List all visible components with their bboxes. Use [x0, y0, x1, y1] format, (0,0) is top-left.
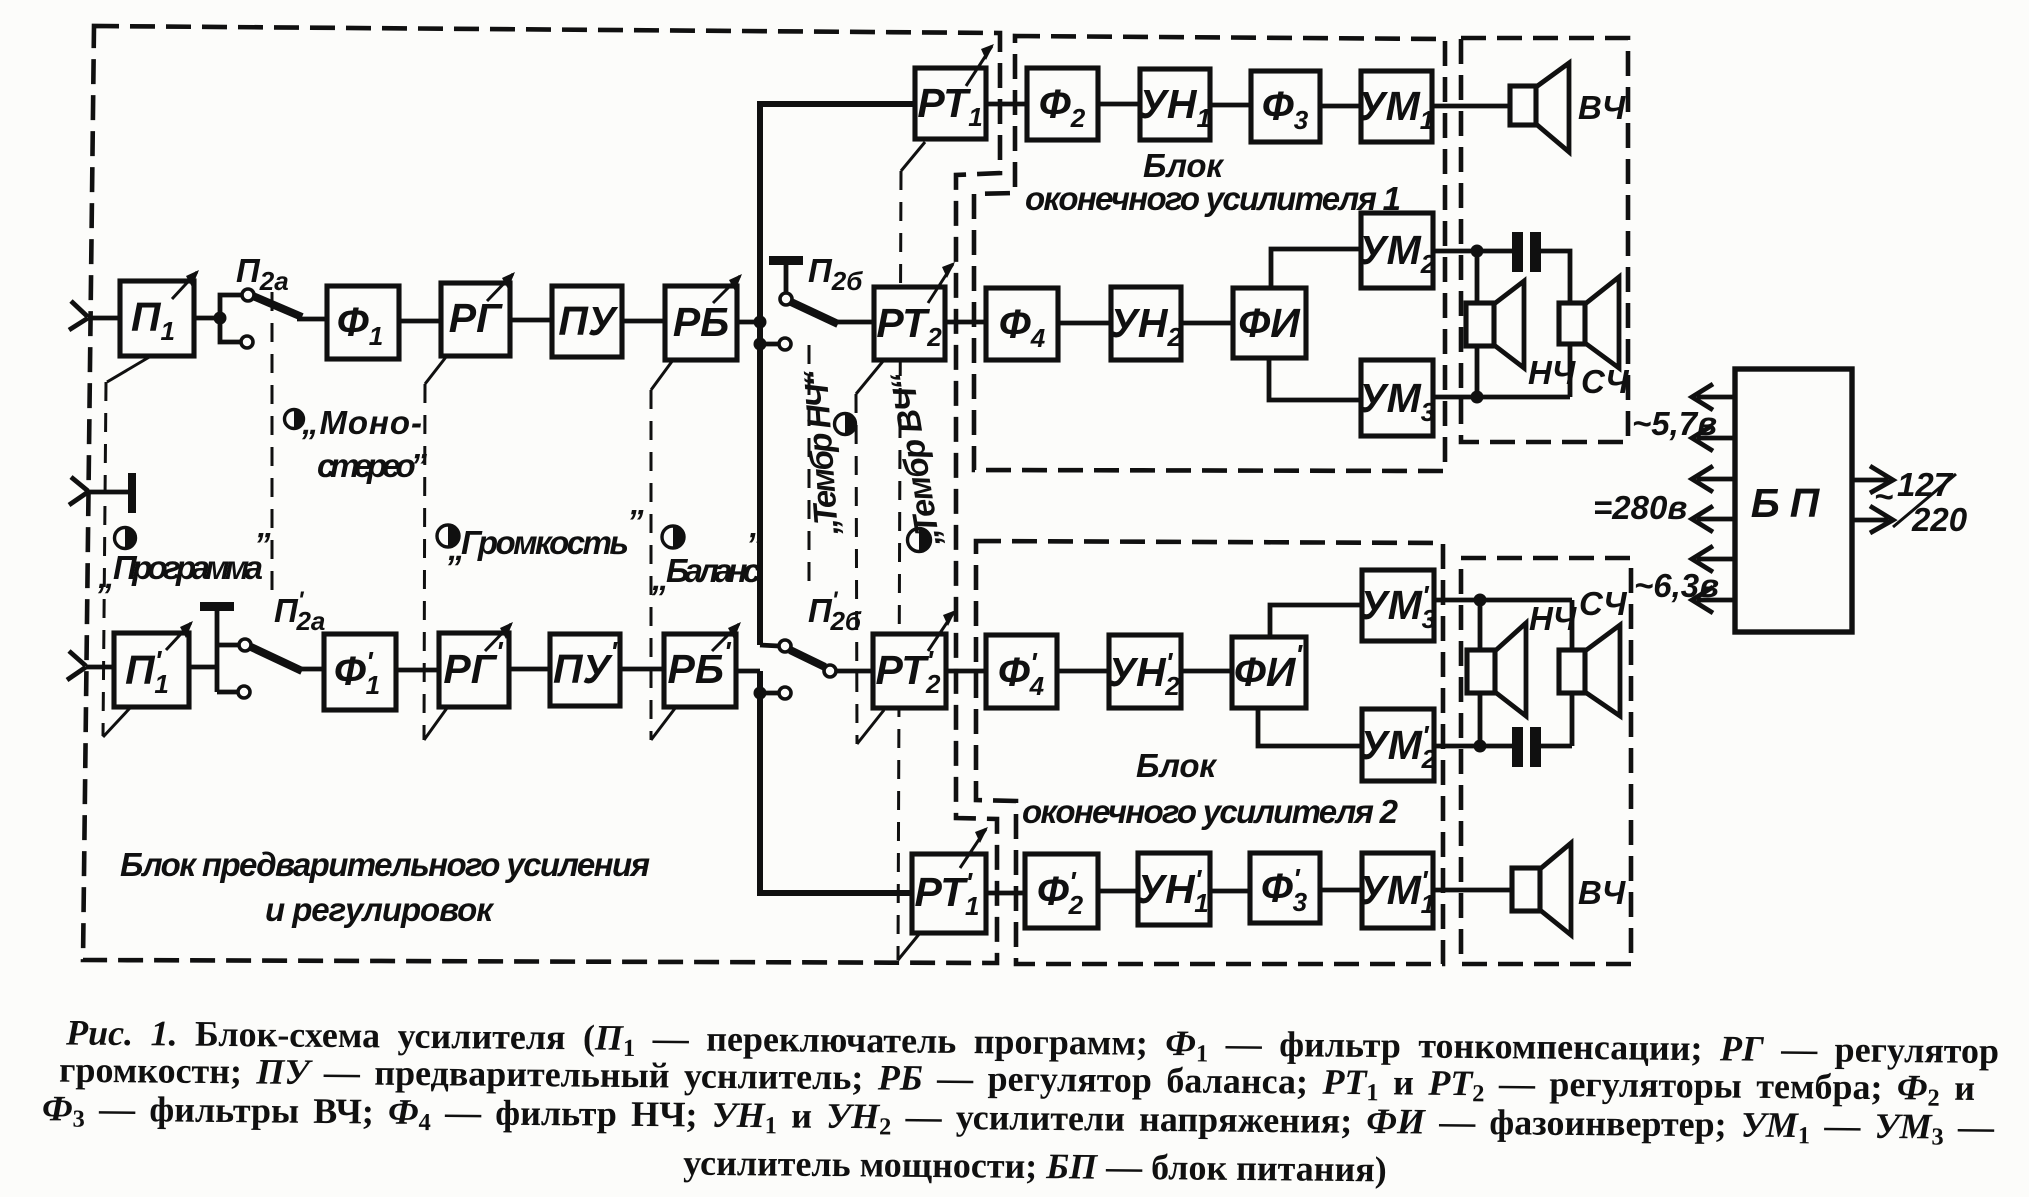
switch П'2б: [760, 640, 836, 677]
wire Ф'2 to УН'1: [1098, 889, 1138, 894]
bus wire to РТ1 and П'2б: [760, 104, 915, 645]
block РГ': [439, 622, 513, 707]
svg-text:Программа: Программа: [113, 549, 263, 586]
label ~6,3в: [1634, 567, 1719, 604]
БП output arrow 5 (~6,3в): [1692, 546, 1735, 572]
wire Ф'4 to УН'2: [1057, 669, 1109, 674]
wire П'2а to Ф'1: [297, 667, 324, 672]
wire ПУ to РБ: [622, 319, 665, 324]
wire УМ3 to speakers bottom: [1433, 395, 1570, 400]
svg-text:и регулировок: и регулировок: [265, 891, 495, 928]
svg-text:оконечного усилителя 1: оконечного усилителя 1: [1025, 180, 1401, 217]
svg-text:ВЧ: ВЧ: [1578, 89, 1626, 126]
svg-text:220: 220: [1911, 501, 1968, 538]
gang link П2б-П'2б (dashed): [808, 345, 811, 588]
wire СЧ' branch vertical: [1570, 600, 1575, 746]
node at П2а common: [214, 312, 227, 325]
svg-text:СЧ: СЧ: [1581, 363, 1629, 400]
capacitor C2 (crossover ch2): [1512, 727, 1541, 767]
svg-text:Блок предварительного усилен: Блок предварительного усиления: [120, 846, 650, 883]
svg-text:РБ: РБ: [673, 299, 729, 345]
label ВЧ: [1578, 89, 1626, 126]
block Ф2 (HF filter): [1027, 68, 1098, 140]
label Блок оконечного усилителя 2: [1022, 747, 1399, 830]
svg-text:оконечного усилителя 2: оконечного усилителя 2: [1022, 793, 1399, 830]
node bus/РБ junction: [754, 316, 767, 329]
wire input1 to П1: [88, 316, 120, 321]
block УН'2: [1108, 635, 1181, 708]
wire ФИ' to УМ'3: [1270, 605, 1362, 637]
block РТ2 (tone control 2): [874, 262, 955, 360]
knob Тембр ВЧ (rotated): [883, 370, 947, 552]
wire РТ'2 to Ф'4: [946, 669, 986, 674]
wire РГ' to ПУ': [509, 667, 550, 672]
svg-text:СЧ: СЧ: [1579, 585, 1627, 622]
wire ПУ' to РБ': [620, 667, 664, 672]
knob Баланс: [651, 526, 763, 597]
svg-text:УМ'2: УМ'2: [1360, 720, 1437, 774]
block УМ2 (power amplifier 2): [1359, 213, 1436, 288]
svg-text:”: ”: [627, 503, 644, 540]
label П2б: [808, 252, 863, 296]
wire Ф2 to УН1: [1098, 102, 1140, 107]
block УМ'2: [1360, 709, 1437, 781]
wire Ф3 to УМ1: [1320, 104, 1361, 109]
БП output arrow 1 (~5,7в): [1692, 384, 1735, 410]
БП output arrow 2: [1692, 425, 1735, 451]
power amplifier block 1 dashed border: [974, 36, 1445, 471]
block РТ'2: [873, 610, 956, 708]
bus wire РБ' down to РТ'1: [760, 671, 912, 893]
svg-text:РГ: РГ: [449, 295, 503, 341]
wire НЧ branch vertical: [1475, 251, 1480, 397]
svg-text:Громкость: Громкость: [461, 524, 629, 561]
speaker box 1 dashed border: [1461, 38, 1628, 442]
wire Ф4 to УН2: [1058, 321, 1111, 326]
wire УН'2 to ФИ': [1181, 669, 1232, 674]
caption line 4: [600, 1141, 1470, 1191]
label П'2а: [274, 587, 325, 636]
switch П2б: [769, 256, 838, 324]
block П1 (programme switch): [120, 270, 199, 356]
wire input3 to П'1: [86, 665, 114, 670]
wire РГ to ПУ: [510, 318, 552, 323]
gang link П2а-П'2а (dashed): [271, 292, 274, 590]
node cap input: [1471, 245, 1484, 258]
wire РТ'1 to Ф'2: [986, 891, 1025, 896]
svg-text:БП: БП: [1751, 480, 1830, 526]
switch П'2а: [189, 602, 302, 698]
БП output arrow 4: [1692, 506, 1735, 532]
knob Моно-стерео: [285, 404, 428, 484]
БП output arrow 3 (=280в): [1692, 466, 1735, 492]
block Ф1 (loudness filter): [327, 286, 399, 359]
svg-text:НЧ: НЧ: [1528, 354, 1576, 391]
label СЧ ch2: [1579, 585, 1627, 622]
preamp block dashed border (Блок предварительного усиления и регулировок): [83, 26, 1000, 963]
block ФИ (phase inverter): [1233, 288, 1306, 358]
wire Ф'1 to РГ': [396, 668, 439, 673]
block БП (power supply): [1735, 369, 1852, 632]
gang link РТ1-РТ'1 (dashed, Тембр ВЧ): [898, 142, 925, 960]
label ВЧ ch2: [1578, 874, 1626, 911]
label СЧ: [1581, 363, 1629, 400]
block УМ'3: [1360, 570, 1437, 641]
wire ФИ' to УМ'2: [1258, 708, 1362, 746]
knob Громкость: [437, 503, 644, 567]
БП output arrow 6: [1692, 587, 1735, 613]
svg-text:стерео”: стерео”: [317, 447, 428, 484]
input terminal 3 (chevron): [67, 651, 86, 680]
svg-text:УМ'1: УМ'1: [1359, 865, 1435, 919]
wire ФИ to УМ3: [1269, 358, 1361, 400]
label П'2б: [808, 587, 862, 636]
wire УН1 to Ф3: [1210, 103, 1251, 108]
input terminal 2 (spare, chevron + T-bar): [69, 473, 136, 513]
svg-text:„Тембр ВЧ“: „Тембр ВЧ“: [883, 370, 947, 550]
input terminal 1 (chevron): [69, 301, 88, 330]
wire РТ1 to Ф2: [986, 102, 1027, 107]
block Ф'3: [1250, 853, 1320, 923]
wire УМ'2 to cap: [1434, 744, 1512, 749]
node П'2б lower contact: [754, 687, 792, 700]
block РТ'1: [912, 827, 988, 933]
gang link РТ2-РТ'2 (dashed, Тембр НЧ): [856, 360, 884, 744]
block Ф3 (HF filter): [1251, 71, 1320, 142]
wire РБ to bus node: [737, 320, 760, 325]
caption line 2: [59, 1049, 1975, 1109]
label П2а: [236, 252, 289, 296]
block УМ3 (power amplifier 3): [1359, 360, 1436, 436]
svg-text:Блок: Блок: [1143, 147, 1225, 184]
block РБ (balance control): [665, 274, 742, 360]
block РГ (volume control): [441, 272, 515, 356]
label Блок предварительного усиления и регулировок: [120, 846, 650, 928]
block УМ'1: [1359, 853, 1435, 928]
speaker НЧ (woofer ch1): [1466, 281, 1524, 368]
block Ф'2: [1025, 854, 1098, 928]
block УН2 (voltage amplifier 2): [1110, 287, 1182, 360]
speaker ВЧ (tweeter ch1): [1510, 63, 1569, 152]
gang link П1-П'1 (dashed): [103, 356, 151, 737]
speaker box 2 dashed border: [1461, 558, 1631, 964]
svg-text:~: ~: [1874, 478, 1893, 515]
block Ф'1: [324, 634, 396, 710]
svg-text:П'2а: П'2а: [274, 587, 325, 636]
svg-text:РТ'2: РТ'2: [876, 645, 942, 699]
svg-text:ФИ: ФИ: [1238, 300, 1301, 346]
svg-text:„Тембр НЧ“: „Тембр НЧ“: [797, 368, 846, 537]
wire УМ'1 to ВЧ' speaker: [1433, 888, 1512, 893]
svg-text:”: ”: [254, 526, 271, 563]
node cap input ch2: [1474, 740, 1487, 753]
block ПУ': [550, 634, 620, 706]
speaker СЧ (midrange ch1): [1559, 277, 1619, 368]
svg-text:П2б: П2б: [808, 252, 863, 296]
switch П2а: [220, 289, 302, 348]
wire РБ' to bus corner: [736, 669, 760, 674]
wire Ф1 to РГ: [399, 319, 441, 324]
wire УН'1 to Ф'3: [1210, 889, 1250, 894]
wire НЧ' branch vertical: [1478, 600, 1483, 746]
block УМ1 (power amplifier 1): [1358, 71, 1434, 142]
caption line 3: [42, 1087, 1994, 1148]
block УН'1: [1137, 853, 1210, 925]
wire cap to СЧ': [1541, 744, 1572, 749]
svg-text:П'2б: П'2б: [808, 587, 862, 636]
wire П'2б to РТ'2: [836, 669, 873, 674]
node УМ'3 output: [1474, 594, 1487, 607]
node УМ3 output: [1471, 391, 1484, 404]
power amplifier block 2 dashed border: [976, 541, 1443, 964]
svg-text:ВЧ: ВЧ: [1578, 874, 1626, 911]
wire ФИ to УМ2: [1271, 249, 1361, 288]
БП mains input arrow 1: [1852, 466, 1893, 493]
block Ф'4: [986, 635, 1057, 708]
svg-text:УН'1: УН'1: [1137, 864, 1209, 918]
label ~127/220: [1874, 466, 1968, 538]
wire П2б to РТ2: [836, 320, 874, 325]
svg-text:~5,7в: ~5,7в: [1632, 405, 1717, 442]
svg-text:„Моно-: „Моно-: [301, 404, 422, 441]
speaker ВЧ' (tweeter ch2): [1512, 843, 1571, 935]
capacitor C1 (crossover): [1512, 232, 1541, 272]
svg-text:”: ”: [746, 526, 763, 563]
wire УМ1 to ВЧ speaker: [1432, 104, 1510, 109]
wire Ф'3 to УМ'1: [1320, 888, 1362, 893]
svg-text:РТ'1: РТ'1: [915, 867, 980, 921]
svg-text:Блок: Блок: [1136, 747, 1218, 784]
label =280в: [1593, 489, 1687, 526]
label НЧ: [1528, 354, 1576, 391]
wire УМ2 to node: [1433, 249, 1512, 254]
svg-text:„: „: [97, 558, 115, 595]
svg-text:=280в: =280в: [1593, 489, 1687, 526]
wire РТ2 to Ф4: [945, 320, 986, 325]
node П2б lower contact: [754, 338, 792, 351]
gang link РГ-РГ' (dashed, Громкость): [424, 357, 447, 740]
block ПУ (preamplifier): [552, 286, 622, 357]
svg-text:УМ'3: УМ'3: [1360, 580, 1437, 634]
svg-text:НЧ: НЧ: [1529, 600, 1577, 637]
label ~5,7в: [1632, 405, 1717, 442]
block РТ1 (tone control 1): [915, 44, 994, 139]
gang link РБ-РБ' (dashed, Баланс): [651, 360, 676, 740]
label НЧ ch2: [1529, 600, 1577, 637]
knob Тембр НЧ (rotated): [797, 368, 856, 537]
label Блок оконечного усилителя 1: [1025, 147, 1401, 217]
wire УМ'3 to node: [1434, 598, 1572, 603]
block Ф4 (LF filter): [986, 288, 1058, 360]
svg-text:ПУ: ПУ: [558, 298, 618, 344]
wire П1 to switch node: [194, 316, 220, 321]
svg-text:~6,3в: ~6,3в: [1634, 567, 1719, 604]
wire П2а to Ф1: [297, 317, 327, 322]
svg-text:УН'2: УН'2: [1108, 647, 1180, 701]
block РБ': [664, 622, 741, 707]
БП mains input arrow 2: [1852, 506, 1893, 533]
speaker СЧ' (midrange ch2): [1559, 625, 1620, 716]
block П'1 (programme switch ch2): [114, 621, 193, 707]
wire УН2 to ФИ: [1181, 321, 1233, 326]
caption line 1: [66, 1011, 1999, 1072]
knob Программа: [97, 526, 271, 595]
block ФИ': [1232, 637, 1306, 708]
block УН1 (voltage amplifier 1): [1139, 69, 1211, 140]
wire cap to СЧ branch: [1541, 251, 1570, 397]
speaker НЧ' (woofer ch2): [1467, 623, 1526, 716]
